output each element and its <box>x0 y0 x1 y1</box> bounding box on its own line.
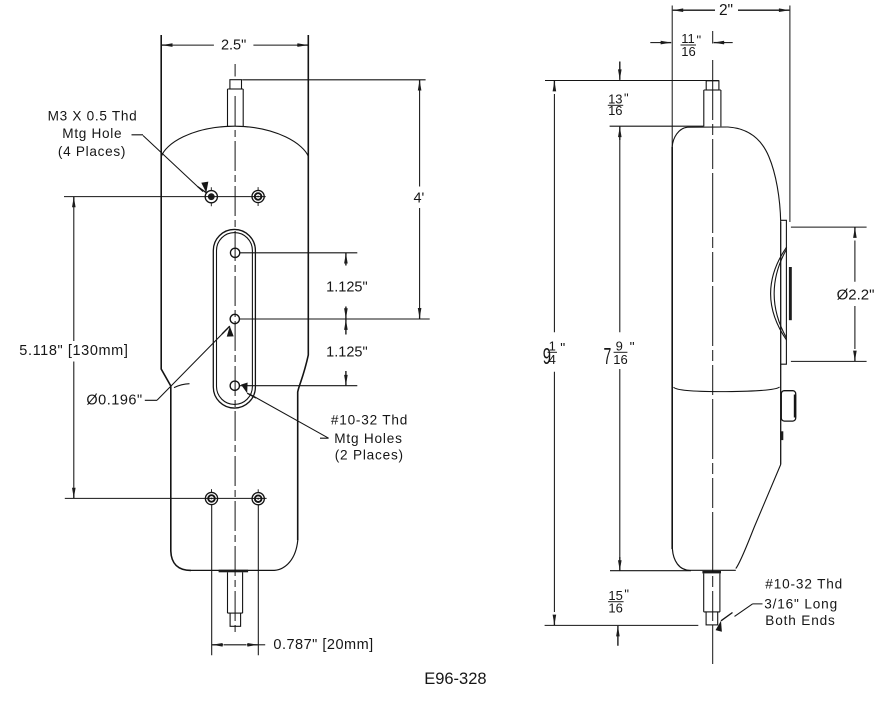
side centerline <box>712 31 714 664</box>
side body top edge <box>688 126 729 128</box>
text: 11/16 fraction <box>681 31 695 59</box>
side knob <box>781 391 795 421</box>
svg-text:(4 Places): (4 Places) <box>58 144 126 159</box>
slot outer outline <box>213 229 255 408</box>
side dial thick edge bar <box>789 267 792 320</box>
side body bottom line <box>690 569 736 571</box>
svg-text:16: 16 <box>681 44 695 59</box>
dimension dia 2.2 line <box>854 241 856 350</box>
text: 10-32 thread note <box>764 577 843 628</box>
extension line at side cap top (9 1/4 top) <box>545 80 719 82</box>
text: 15/16 fraction <box>608 588 622 616</box>
dial diameter extension lines <box>791 227 867 361</box>
bottom shaft flange bar (front view) <box>219 570 249 573</box>
side body bottom-left corner <box>672 549 690 570</box>
side dial lens outer arc <box>771 247 787 340</box>
side bottom shaft tip <box>706 612 718 625</box>
dimension 2.5" line left part <box>172 44 214 46</box>
svg-text:1.125": 1.125" <box>326 344 367 360</box>
body bottom-right corner (front view) <box>275 540 298 570</box>
svg-text:": " <box>624 90 629 105</box>
svg-text:": " <box>560 340 565 356</box>
leader #10-32 Mtg Holes <box>250 394 329 438</box>
svg-text:1.125": 1.125" <box>326 279 367 295</box>
side body right edge <box>780 222 782 465</box>
side small latch tick <box>780 431 783 440</box>
mounting hole bottom-right M3 <box>252 489 264 505</box>
dimension 1.125 lower arrows <box>345 319 347 334</box>
svg-text:": " <box>624 587 629 602</box>
dimension 0.787 line with arrows <box>224 644 247 646</box>
dimension 7 9/16 line <box>619 140 621 557</box>
dimension 0.787 extension lines <box>212 505 259 656</box>
svg-text:Ø0.196": Ø0.196" <box>86 393 142 409</box>
extension line slot hole1 (1.125 top) <box>240 252 357 254</box>
leader 0.196 <box>145 329 228 401</box>
text: M3 hole label <box>48 108 138 159</box>
body bottom line (front view) <box>191 569 275 571</box>
side body top-left corner <box>672 127 687 147</box>
svg-text:(2 Places): (2 Places) <box>335 448 404 463</box>
top shaft cap (front view) <box>230 80 242 89</box>
mounting hole top-left M3 <box>205 187 217 206</box>
svg-text:E96-328: E96-328 <box>424 670 486 688</box>
svg-text:0.787" [20mm]: 0.787" [20mm] <box>273 637 373 653</box>
side knob thick right edge <box>794 395 796 418</box>
dimension 15/16 bottom arrow <box>617 626 619 646</box>
svg-text:#10-32 Thd: #10-32 Thd <box>331 413 408 428</box>
mounting hole top-right M3 <box>252 187 264 206</box>
side bottom shaft flange bar <box>702 571 721 574</box>
svg-text:": " <box>630 339 635 355</box>
svg-text:3/16" Long: 3/16" Long <box>764 597 838 612</box>
side body top-right curve <box>728 127 781 222</box>
svg-text:4': 4' <box>413 190 424 206</box>
svg-text:#10-32 Thd: #10-32 Thd <box>765 577 843 592</box>
svg-text:Both Ends: Both Ends <box>765 613 835 628</box>
leader stub near taper <box>174 384 190 388</box>
dimension 2" line <box>673 9 715 11</box>
side bottom shaft body <box>704 573 720 612</box>
side dial bezel plate <box>781 220 787 364</box>
side top shaft body <box>704 90 721 126</box>
svg-text:": " <box>697 33 702 48</box>
extension line slot hole3 (1.125 bottom) <box>240 385 358 387</box>
dimension 4" line <box>419 91 421 309</box>
slot hole 3 <box>230 381 239 390</box>
side top shaft cap <box>706 81 719 90</box>
slot inner outline <box>217 233 253 405</box>
text: 10-32 Mtg Holes label <box>331 413 408 463</box>
svg-text:Mtg Hole: Mtg Hole <box>62 126 122 141</box>
side body left edge + 2" extension <box>671 6 673 148</box>
body left edge with taper (front view) <box>161 35 191 570</box>
dimension 5.118 line <box>73 201 75 494</box>
extension line through top holes (5.118 top) <box>64 196 266 198</box>
dimension 4" extension line at shaft cap top <box>242 79 425 81</box>
svg-text:4: 4 <box>549 352 556 367</box>
dimension 11/16 left stub <box>650 42 660 44</box>
svg-text:2": 2" <box>719 2 733 19</box>
svg-text:16: 16 <box>613 352 627 367</box>
bottom shaft body (front view) <box>228 572 243 613</box>
side body right taper <box>736 465 781 569</box>
svg-text:Ø2.2": Ø2.2" <box>837 287 875 304</box>
slot hole 2 <box>230 314 239 323</box>
svg-text:Mtg Holes: Mtg Holes <box>334 431 402 446</box>
side dial lens inner arc <box>774 250 786 338</box>
body right edge with taper (front view) <box>298 35 309 540</box>
centerline (front view) <box>234 64 236 633</box>
dimension 11/16 right stub <box>724 42 733 44</box>
dimension 9 1/4 line <box>553 94 555 612</box>
bottom shaft tip (front view) <box>230 613 241 626</box>
2" right extension line <box>789 6 791 223</box>
extension line slot hole2 (1.125 / 4") <box>240 318 430 320</box>
text: 13/16 fraction <box>608 92 622 118</box>
extension line at side body bottom <box>610 570 691 572</box>
leader M3 Mtg Hole <box>132 135 204 192</box>
slot hole 1 <box>230 248 239 257</box>
extension line through bottom holes (5.118 bottom) <box>65 497 267 499</box>
extension line at side body top (13/16 bottom) <box>610 125 704 127</box>
side body seam line <box>674 387 780 392</box>
svg-text:7: 7 <box>604 343 612 369</box>
svg-text:2.5": 2.5" <box>221 38 246 54</box>
body top dome curve (front view) <box>161 126 308 157</box>
leader #10-32 thread note <box>735 604 763 617</box>
dimension 2.5" line right part <box>253 44 297 46</box>
dimension 13/16 top arrow <box>619 62 621 80</box>
mounting hole bottom-left M3 <box>205 489 217 505</box>
extension line at shaft tip bottom (15/16 / 9 1/4) <box>545 624 699 626</box>
svg-text:5.118" [130mm]: 5.118" [130mm] <box>19 343 128 359</box>
top shaft body (front view) <box>228 89 244 126</box>
svg-text:M3 X 0.5 Thd: M3 X 0.5 Thd <box>48 108 138 123</box>
dimension 1.125 upper arrows <box>345 253 347 266</box>
svg-text:16: 16 <box>608 601 622 616</box>
